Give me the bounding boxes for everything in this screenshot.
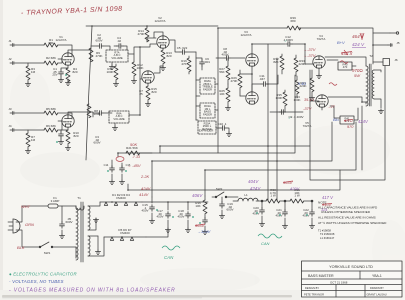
fuse F1 [48, 204, 58, 208]
svg-text:C4.02: C4.02 [117, 36, 122, 43]
svg-text:CAN: CAN [164, 255, 174, 260]
resistor R3 1M vertical [27, 63, 29, 66]
filter capacitor C22 [311, 201, 313, 210]
wire V5 plate to T2 [328, 97, 366, 104]
capacitor C11 [261, 82, 268, 87]
svg-text:420V: 420V [290, 186, 300, 191]
svg-text:L1: L1 [244, 193, 248, 197]
ground under V1A cathode [65, 81, 70, 85]
triode V1A [62, 53, 74, 65]
ground under V1B cathode [65, 146, 70, 150]
svg-text:→27: →27 [327, 105, 336, 109]
filter capacitor C20 [261, 201, 263, 208]
cathode resistor R13 820 [162, 48, 164, 50]
svg-text:✓.33: ✓.33 [132, 155, 140, 159]
coupling capacitor C4 ch1b [117, 44, 124, 49]
resistor R35 100K [283, 92, 287, 106]
svg-text:414V: 414V [139, 192, 149, 197]
svg-text:C2040450V: C2040450V [252, 206, 259, 216]
output transformer T2 primary [366, 66, 368, 106]
svg-text:R26470K: R26470K [230, 76, 237, 83]
svg-text:R39680: R39680 [290, 16, 296, 23]
wire B+ screen line y161 [152, 122, 332, 197]
svg-text:C2140450V: C2140450V [275, 208, 282, 218]
svg-text:BASS MASTER: BASS MASTER [308, 274, 334, 278]
T1 core [81, 202, 83, 262]
triode V3A [246, 54, 258, 66]
wire J4 to R6 [15, 129, 44, 131]
resistor R32 82K [280, 56, 284, 70]
wire HV to rectifier [88, 202, 100, 236]
svg-text:GRN: GRN [25, 222, 34, 227]
junction node B [284, 200, 286, 202]
T2 secondary [372, 70, 374, 99]
svg-text:R3610K: R3610K [195, 201, 201, 208]
svg-text:BLK: BLK [17, 245, 25, 250]
svg-text:DESIGN BY: DESIGN BY [305, 286, 319, 290]
svg-text:R31M: R31M [31, 67, 36, 74]
coupling capacitor C2 ch1 [91, 45, 97, 47]
svg-text:J5: J5 [396, 41, 400, 45]
wire V4 grid [305, 55, 314, 64]
wire V2A plate to C5 [169, 40, 180, 52]
resistor R6 68K [44, 128, 58, 132]
wire V4 plate to T2 [325, 57, 366, 66]
svg-text:PETE TRAYNOR: PETE TRAYNOR [304, 292, 324, 296]
power transformer T1 primary [76, 206, 84, 260]
wire NFB from T2 [361, 106, 363, 170]
svg-text:GRANT LAUSAU: GRANT LAUSAU [367, 292, 387, 296]
V2B plate wire [154, 66, 163, 73]
triode V2B [142, 71, 154, 83]
svg-text:R35100K: R35100K [275, 93, 282, 100]
svg-text:424V: 424V [141, 186, 151, 191]
wire R1 to grid [58, 45, 72, 59]
wire line y190 [128, 170, 340, 190]
cathode grounds V4 V5 [319, 68, 322, 110]
svg-text:- VOLTAGES MEASURED ON WITH: - VOLTAGES MEASURED ON WITH 8Ω LOAD/SPEA… [9, 288, 176, 294]
svg-text:R33220K: R33220K [298, 59, 305, 66]
svg-text:R6 68K: R6 68K [46, 124, 56, 128]
wire heater bottom to diodes row2 [88, 237, 104, 256]
potentiometer R7A VOLUME dashed box [106, 50, 128, 62]
svg-text:404V: 404V [248, 179, 259, 184]
T2 core [369, 64, 371, 106]
NOTE text block [318, 201, 387, 240]
resistor R30 [262, 200, 266, 202]
ground under pot R8A [114, 123, 116, 126]
ground under C10 [226, 132, 231, 136]
input jack J2 [10, 61, 14, 64]
green can markers [162, 246, 180, 250]
switch SW1 [40, 242, 76, 247]
potentiometer R8A VOLUME dashed box [109, 111, 129, 123]
svg-text:C19.02600V: C19.02600V [226, 202, 233, 212]
speaker jack J5 [388, 43, 392, 46]
wire speaker return vertical [310, 66, 385, 180]
wire R2 to grid junction [58, 59, 62, 63]
svg-text:EXPANDER: EXPANDER [199, 129, 214, 133]
bias capacitor C16 [120, 166, 125, 173]
wire line y170 [205, 122, 356, 196]
svg-text:DRAWN BY: DRAWN BY [370, 286, 384, 290]
green electrolytic dots [56, 74, 308, 224]
pot R18A TREBLE dashed box [200, 78, 215, 94]
bias diode row D1-D4 [100, 201, 142, 203]
resistor R27 tail [226, 66, 230, 80]
svg-text:C725: C725 [139, 89, 143, 96]
svg-text:UNLESS OTHERWISE SPECIFIED: UNLESS OTHERWISE SPECIFIED [321, 210, 371, 214]
resistor R36 vertical [203, 200, 207, 214]
svg-text:✓: ✓ [288, 116, 291, 120]
AC plug [13, 219, 20, 233]
resistor R10p 470K plate load V2A [146, 26, 148, 28]
resistor R33 220K [294, 58, 298, 72]
pot R19A BASS dashed box [200, 103, 215, 118]
title block [302, 261, 403, 297]
svg-text:OCT 21 1968: OCT 21 1968 [330, 280, 348, 284]
resistor R25 [226, 88, 230, 102]
svg-text:J4: J4 [8, 124, 12, 128]
ground under pot R7A [111, 62, 113, 65]
resistor R26 470K [238, 74, 242, 88]
input jack J1 [10, 43, 14, 46]
svg-text:T1: T1 [77, 196, 81, 200]
svg-text:CAN: CAN [261, 241, 270, 246]
input jack J3 [10, 111, 14, 114]
svg-text:AT ½ WATTS UNLESS OTHERWISE SP: AT ½ WATTS UNLESS OTHERWISE SPECIFIED [318, 221, 387, 225]
T1 secondary heater [88, 236, 90, 256]
wire J2 to R2 [15, 62, 44, 64]
resistor R34 220K [295, 80, 299, 94]
cathode resistor R4 [67, 65, 69, 68]
svg-text:→-37V: →-37V [303, 47, 316, 52]
resistor R39 on top rail [287, 26, 301, 30]
capacitor C5 .022 [180, 50, 187, 55]
wire T2 secondary to ground [374, 70, 381, 108]
svg-text:417 V: 417 V [322, 195, 334, 200]
capacitor C8 PI input [216, 57, 224, 59]
wire doghouse bus [142, 202, 208, 237]
svg-text:✓: ✓ [284, 39, 287, 43]
cathode resistor R6b [67, 127, 69, 130]
diode row D5-D7 [104, 236, 146, 238]
svg-text:424 V: 424 V [352, 42, 365, 47]
cathode resistor R44 [311, 70, 313, 78]
capacitor C10 expander [220, 126, 227, 131]
resistor R7 1M vertical [27, 130, 29, 133]
resistor R31 [290, 199, 304, 203]
svg-text:C12525V: C12525V [52, 67, 57, 77]
svg-text:R71M: R71M [31, 135, 36, 142]
resistor R1 68K [44, 43, 58, 47]
svg-text:R14470K: R14470K [137, 29, 144, 36]
paper mottling [10, 70, 405, 292]
svg-text:R10820: R10820 [73, 131, 79, 138]
triode V1B [62, 115, 74, 127]
wire J1 to R1 [15, 44, 44, 46]
doghouse capacitor C18 [187, 202, 189, 210]
svg-text:35.4Ω: 35.4Ω [304, 98, 314, 102]
svg-text:R15820: R15820 [151, 87, 157, 94]
svg-text:R2756K: R2756K [219, 67, 225, 74]
svg-text:R2 68K: R2 68K [46, 56, 56, 60]
wire: B+ top rail right [218, 28, 373, 45]
svg-text:SW1: SW1 [44, 251, 51, 255]
wire C5 to tone stack [187, 51, 196, 53]
wire R6 to grid junction [58, 121, 62, 130]
pentode V4 [313, 56, 325, 68]
svg-text:R11100K: R11100K [106, 67, 113, 74]
wire V5 grid [310, 100, 319, 102]
resistor R5 68K [44, 111, 58, 115]
svg-text:R2510K: R2510K [219, 89, 225, 96]
resistor R11 mixer vertical [114, 66, 118, 80]
wire V1A plate to load [68, 50, 91, 53]
triode V3B [246, 92, 258, 104]
wire: B+ top rail left [86, 25, 218, 27]
input jack J4 [10, 128, 14, 131]
T1 secondary HV [88, 206, 90, 230]
svg-text:T2 #166168: T2 #166168 [320, 232, 335, 236]
standby switch SW2 [212, 192, 238, 197]
svg-text:470K: 470K [95, 54, 102, 58]
svg-text:R13820: R13820 [166, 51, 172, 58]
resistor R12 grid stopper vertical [133, 54, 135, 62]
screen resistor box R41 [340, 116, 354, 124]
resistor R2 68K [44, 61, 58, 65]
wire vertical x268 [267, 44, 269, 201]
capacitor C1 bypass [59, 70, 64, 77]
tone stack vertical bus [195, 52, 197, 120]
bias capacitor C14 [110, 166, 115, 173]
wire R5 to grid [58, 113, 72, 121]
choke L1 [238, 198, 258, 201]
junction node C [311, 200, 313, 202]
capacitor C6 treble [200, 60, 205, 67]
svg-text:50K: 50K [130, 142, 137, 147]
wire bias line y153 [118, 75, 295, 153]
capacitor C12 [286, 42, 293, 47]
pentode V5 [316, 95, 328, 107]
doghouse capacitor C17 [167, 202, 169, 210]
svg-text:SW2: SW2 [216, 187, 223, 191]
svg-text:C10 .1: C10 .1 [218, 122, 227, 126]
wire V1B plate to load [68, 112, 89, 115]
V2B cathode resistor R15 [147, 83, 149, 86]
speaker jack J6 square [383, 59, 390, 66]
wire V3B grid [240, 95, 246, 97]
wire: vertical x218 [217, 28, 219, 153]
svg-text:T2: T2 [369, 54, 373, 58]
svg-text:424V: 424V [250, 186, 261, 191]
svg-text:C15.1450V: C15.1450V [141, 203, 148, 213]
line capacitor C23 [61, 206, 63, 222]
svg-text:R5 68K: R5 68K [46, 107, 56, 111]
capacitor C2b bypass [59, 132, 64, 139]
svg-text:424V: 424V [358, 119, 369, 124]
capacitor C9 [270, 111, 303, 113]
bias resistor R21 56K [126, 151, 140, 155]
junction node A [261, 200, 263, 202]
wire rail to terminal [373, 32, 390, 34]
svg-text:C5 .022: C5 .022 [177, 46, 188, 50]
red scribble near screens [329, 83, 337, 86]
svg-text:C14: C14 [104, 163, 109, 167]
svg-text:→-37V: →-37V [303, 53, 316, 58]
svg-text:R168K: R168K [48, 38, 53, 45]
svg-text:YBA-1: YBA-1 [372, 274, 382, 278]
terminal B top right [390, 32, 399, 34]
svg-text:T1 #19838: T1 #19838 [318, 229, 331, 233]
resistor R16 47K [187, 58, 191, 72]
cathode network V3 [240, 66, 252, 92]
svg-text:WHT: WHT [21, 204, 31, 209]
wire plug neutral [16, 230, 40, 247]
svg-text:- VOLTAGES, NO TUBES: - VOLTAGES, NO TUBES [9, 279, 64, 284]
svg-text:Blu: Blu [333, 117, 340, 122]
triode V2A [157, 36, 169, 48]
svg-text:464: 464 [352, 34, 360, 39]
svg-text:-37V: -37V [303, 106, 312, 111]
wire J3 to R5 [15, 112, 44, 114]
pot R20A RANGE EXPANDER dashed box [198, 121, 216, 134]
svg-text:R1647K: R1647K [181, 59, 187, 66]
ground under R7 [27, 147, 29, 149]
svg-text:YORKVILLE SOUND LTD: YORKVILLE SOUND LTD [329, 265, 373, 269]
svg-text:● ELECTROLYTIC CAPACITOR: ● ELECTROLYTIC CAPACITOR [9, 272, 78, 277]
svg-text:970: 970 [347, 125, 354, 129]
svg-text:324: 324 [321, 208, 327, 212]
svg-text:5.4Ω: 5.4Ω [298, 82, 306, 86]
wire V3A plate up to C12 [252, 44, 285, 54]
wire jack feed [373, 45, 388, 62]
svg-text:2.2K: 2.2K [140, 174, 150, 179]
svg-text:J3: J3 [8, 107, 12, 111]
svg-text:→324V: →324V [197, 229, 211, 234]
svg-text:C1840450V: C1840450V [177, 209, 184, 219]
resistor R9 100K plate load [89, 48, 93, 62]
svg-text:J6: J6 [394, 58, 398, 62]
svg-text:406V: 406V [192, 193, 203, 198]
svg-text:C2220450V: C2220450V [302, 208, 309, 218]
wire plug hot [16, 206, 48, 222]
svg-text:R3282K: R3282K [273, 57, 279, 64]
svg-text:B+V: B+V [337, 40, 345, 45]
screen resistor box R40 [338, 62, 352, 70]
wire mix bus into V2 grid [140, 44, 157, 47]
svg-text:C11.047: C11.047 [259, 74, 265, 81]
svg-text:R304.7K1 W: R304.7K1 W [270, 188, 276, 198]
svg-text:R12100K: R12100K [136, 63, 143, 70]
svg-text:R19A1M LBASSFADER: R19A1M LBASSFADER [203, 104, 212, 116]
svg-text:J2: J2 [8, 57, 12, 61]
capacitor C19 [221, 197, 223, 202]
ground under R3 [27, 80, 29, 82]
doghouse capacitor C15 [151, 197, 153, 203]
wire V3B plate to C11 [252, 84, 261, 92]
resistor R8 100K plate load vertical [87, 104, 91, 118]
ground T1 taps [93, 218, 98, 222]
wire vertical x277 [276, 58, 278, 201]
svg-text:J1: J1 [8, 39, 12, 43]
wire feedback line y146 [160, 70, 310, 153]
wire: long vertical left bus [86, 26, 92, 160]
svg-text:L1 #166147: L1 #166147 [320, 236, 335, 240]
scan shadow bottom edge [2, 295, 292, 297]
V2B grid wire from pot [140, 78, 142, 80]
svg-text:ALL RESISTANCE VALUE ARE IN: ALL RESISTANCE VALUE ARE IN OHMS [318, 216, 376, 220]
filter capacitor C21 [284, 201, 286, 210]
svg-text:R43100K: R43100K [293, 95, 300, 102]
coupling capacitor C3 ch2 [89, 112, 93, 117]
svg-text:→ -45V: → -45V [127, 163, 141, 168]
